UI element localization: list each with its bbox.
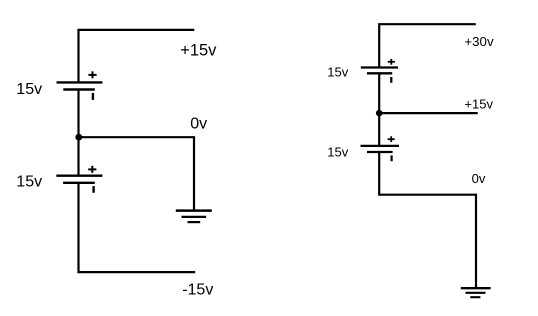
ground GND1 <box>176 211 212 223</box>
wire B2 negative to -15v rail <box>79 183 196 272</box>
svg-text:+15v: +15v <box>180 42 217 60</box>
wire top-right L (from +30v rail to battery B3 positive) <box>379 24 476 67</box>
battery B1 plate negative (short) <box>63 88 95 90</box>
svg-text:15v: 15v <box>327 65 348 80</box>
battery B3 minus mark <box>390 77 392 83</box>
battery B2 plus mark <box>88 166 96 173</box>
svg-text:-15v: -15v <box>182 281 213 298</box>
node B junction dot <box>376 110 383 117</box>
battery B2 plate positive (long) <box>56 174 102 176</box>
wire node A to 0v rail <box>79 137 194 209</box>
battery B4 minus mark <box>391 155 393 161</box>
battery B3 plate negative (short) <box>367 72 392 74</box>
battery B3 plate positive (long) <box>361 66 398 68</box>
battery B2 plate negative (short) <box>63 182 95 184</box>
node A junction dot <box>75 134 82 141</box>
battery B4 plate negative (short) <box>367 151 393 153</box>
svg-text:0v: 0v <box>472 171 486 186</box>
battery B4 plate positive (long) <box>361 145 400 147</box>
battery B1 plus mark <box>88 71 96 78</box>
svg-text:+30v: +30v <box>464 34 494 49</box>
battery B4 plus mark <box>388 136 395 142</box>
svg-text:15v: 15v <box>16 173 42 190</box>
ground GND2 <box>461 288 491 297</box>
battery B3 plus mark <box>388 59 395 65</box>
battery B2 minus mark <box>92 186 94 193</box>
wire node B to +15v rail <box>379 112 478 114</box>
wire B4 negative to 0v rail <box>379 152 476 288</box>
svg-text:0v: 0v <box>190 116 207 133</box>
wire B3 negative to node B and battery B4 <box>378 73 380 146</box>
svg-text:15v: 15v <box>16 81 42 98</box>
wire top-left L (from +15v rail to battery B1 positive) <box>79 30 195 83</box>
wire B1 negative to node A and battery B2 <box>77 90 79 176</box>
svg-text:+15v: +15v <box>464 97 493 112</box>
svg-text:15v: 15v <box>327 145 348 160</box>
battery B1 plate positive (long) <box>57 81 103 83</box>
battery B1 minus mark <box>92 93 94 100</box>
